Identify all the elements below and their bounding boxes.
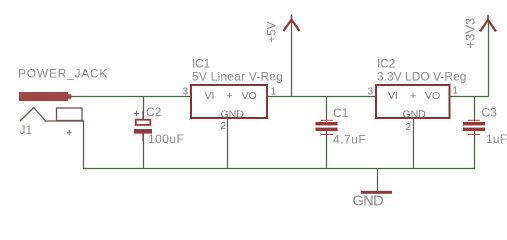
svg-text:IC2: IC2: [377, 57, 396, 71]
svg-text:1: 1: [453, 86, 459, 97]
svg-text:+: +: [133, 108, 139, 120]
svg-text:C2: C2: [146, 105, 162, 119]
svg-text:1uF: 1uF: [486, 132, 507, 146]
svg-text:1: 1: [271, 87, 277, 98]
svg-text:+5V: +5V: [267, 21, 279, 42]
svg-text:5V Linear V-Reg: 5V Linear V-Reg: [192, 70, 283, 84]
svg-text:3: 3: [183, 87, 189, 98]
svg-text:VI: VI: [205, 90, 215, 102]
svg-text:3: 3: [368, 87, 374, 98]
svg-text:2: 2: [221, 121, 227, 132]
svg-text:POWER_JACK: POWER_JACK: [18, 67, 108, 81]
svg-text:+: +: [410, 90, 416, 102]
svg-text:VO: VO: [242, 90, 257, 102]
svg-text:GND: GND: [221, 109, 245, 121]
svg-text:+: +: [66, 128, 72, 140]
svg-text:C1: C1: [333, 106, 349, 120]
svg-text:+: +: [227, 90, 233, 102]
svg-text:GND: GND: [353, 194, 384, 210]
svg-text:VO: VO: [425, 90, 440, 102]
svg-text:3.3V LDO V-Reg: 3.3V LDO V-Reg: [377, 70, 466, 84]
svg-text:100uF: 100uF: [148, 132, 184, 146]
svg-text:IC1: IC1: [192, 57, 211, 71]
svg-text:J1: J1: [20, 123, 33, 137]
svg-text:2: 2: [406, 122, 412, 133]
svg-text:GND: GND: [403, 109, 427, 121]
svg-text:4.7uF: 4.7uF: [333, 133, 366, 147]
svg-text:+3V3: +3V3: [463, 18, 478, 49]
svg-text:C3: C3: [482, 106, 498, 120]
svg-text:VI: VI: [388, 90, 398, 102]
